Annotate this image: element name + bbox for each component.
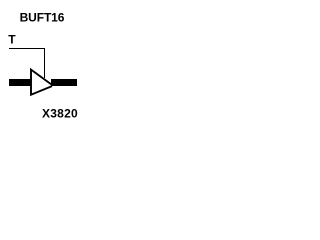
- output bus wire thick bar: [51, 79, 77, 86]
- buffer triangle body: [31, 70, 52, 95]
- svg-text:BUFT16: BUFT16: [20, 11, 65, 25]
- svg-text:T: T: [8, 33, 16, 47]
- wire T control vertical segment: [44, 48, 45, 78]
- wire T control horizontal segment: [9, 48, 45, 49]
- svg-text:X3820: X3820: [42, 107, 78, 121]
- input bus wire thick bar: [9, 79, 32, 86]
